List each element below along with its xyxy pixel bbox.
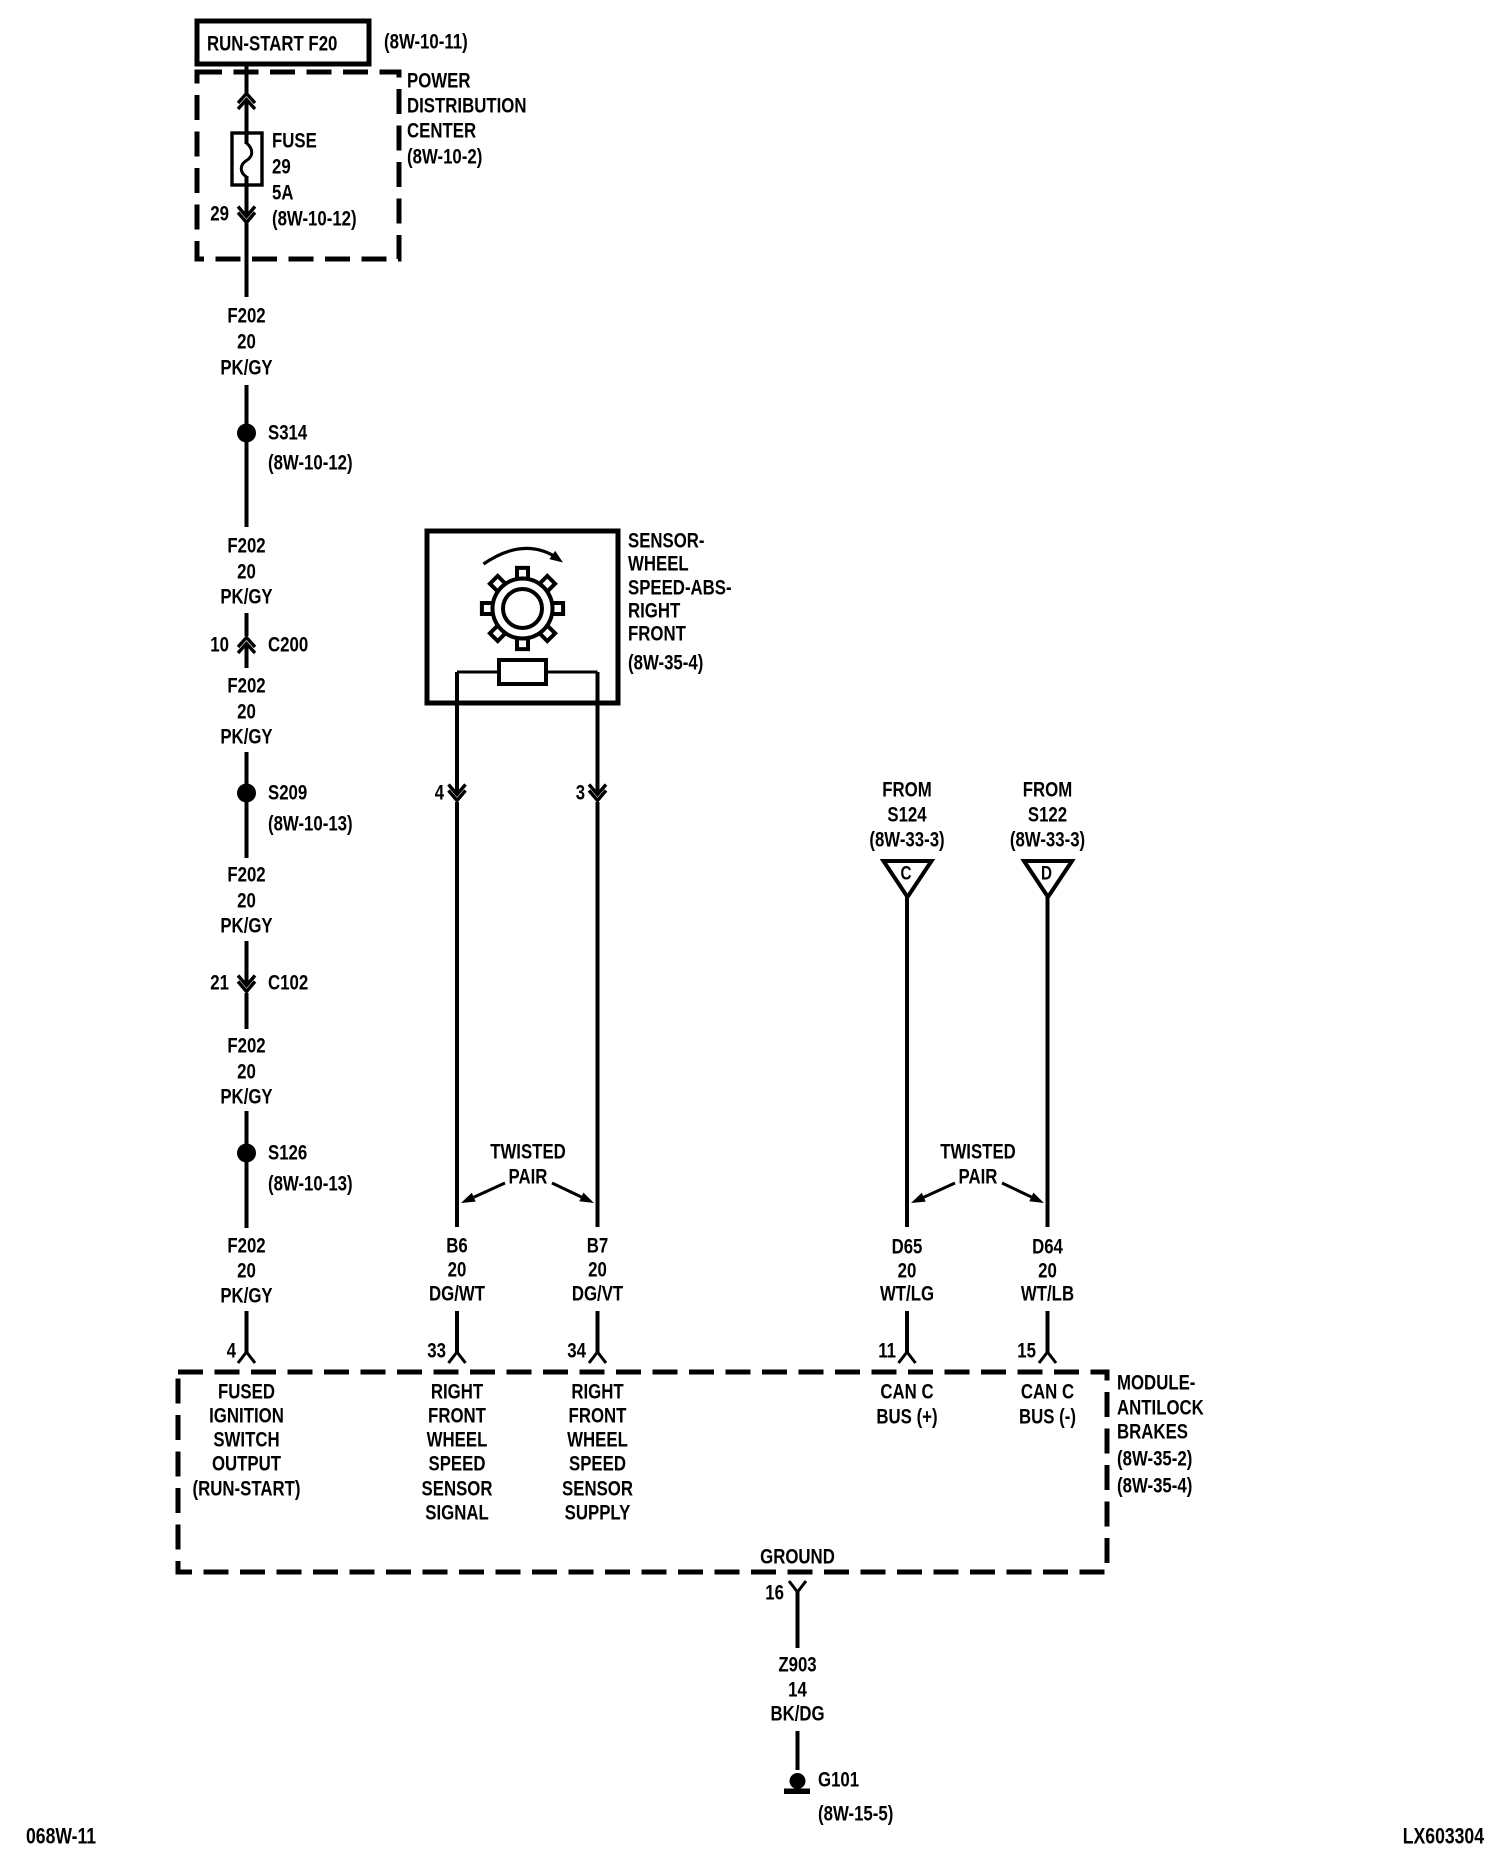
svg-text:C102: C102 (268, 972, 308, 995)
svg-text:21: 21 (210, 972, 229, 995)
svg-text:PK/GY: PK/GY (220, 357, 272, 380)
tone wheel gear (482, 568, 563, 649)
svg-text:20: 20 (237, 1260, 256, 1283)
svg-text:G101: G101 (818, 1769, 859, 1792)
svg-text:BUS (+): BUS (+) (876, 1406, 937, 1429)
svg-text:B7: B7 (587, 1235, 609, 1258)
twisted pair arrow to B7 (552, 1183, 581, 1197)
svg-text:SIGNAL: SIGNAL (425, 1502, 489, 1525)
wire C102 down (245, 993, 249, 1029)
svg-text:20: 20 (588, 1259, 607, 1282)
svg-text:(8W-10-13): (8W-10-13) (268, 1173, 353, 1196)
svg-text:(8W-35-2): (8W-35-2) (1117, 1448, 1192, 1471)
svg-text:ANTILOCK: ANTILOCK (1117, 1397, 1204, 1420)
svg-text:TWISTED: TWISTED (490, 1141, 566, 1164)
svg-text:FUSE: FUSE (272, 130, 317, 153)
wire fuse to pin 29 (245, 176, 249, 214)
wire to splice S126 (245, 1111, 249, 1145)
svg-text:WHEEL: WHEEL (628, 553, 689, 576)
twisted pair arrow to D64 (1002, 1183, 1031, 1197)
svg-text:B6: B6 (446, 1235, 468, 1258)
sensor internal wire right (546, 671, 598, 674)
wire to splice S209 (245, 752, 249, 785)
svg-text:C200: C200 (268, 634, 308, 657)
wire B6 down (455, 802, 459, 1227)
svg-text:16: 16 (765, 1582, 784, 1605)
svg-text:F202: F202 (227, 1235, 265, 1258)
wire B7 down (596, 802, 600, 1227)
sensor box (wheel speed sensor) (427, 531, 618, 703)
svg-text:PK/GY: PK/GY (220, 1086, 272, 1109)
svg-text:SUPPLY: SUPPLY (565, 1502, 631, 1525)
svg-text:068W-11: 068W-11 (26, 1824, 96, 1849)
svg-text:20: 20 (448, 1259, 467, 1282)
svg-text:D: D (1041, 864, 1052, 885)
svg-text:(RUN-START): (RUN-START) (193, 1478, 301, 1501)
power distribution center box (dashed) (197, 72, 399, 259)
svg-text:4: 4 (227, 1340, 237, 1363)
off-page connector D (from S122) (1024, 861, 1072, 897)
wire to module pin 4 (245, 1311, 249, 1352)
svg-text:S122: S122 (1028, 804, 1067, 827)
svg-text:WHEEL: WHEEL (427, 1429, 488, 1452)
svg-text:SPEED: SPEED (429, 1453, 486, 1476)
wire sensor pin 3 down (596, 701, 600, 793)
wire CAN C bus + down (905, 897, 909, 1227)
splice S314 (237, 424, 256, 443)
wire S126 down (245, 1161, 249, 1228)
svg-text:S314: S314 (268, 422, 307, 445)
svg-text:S124: S124 (887, 804, 926, 827)
svg-text:POWER: POWER (407, 70, 471, 93)
svg-text:DG/VT: DG/VT (572, 1283, 623, 1306)
svg-text:C: C (901, 864, 912, 885)
svg-text:PK/GY: PK/GY (220, 586, 272, 609)
svg-text:RIGHT: RIGHT (571, 1381, 623, 1404)
svg-text:33: 33 (427, 1340, 446, 1363)
wire chevron to fuse (245, 100, 249, 144)
svg-text:BK/DG: BK/DG (770, 1703, 824, 1726)
svg-text:15: 15 (1017, 1340, 1036, 1363)
svg-text:TWISTED: TWISTED (940, 1141, 1016, 1164)
wire C200 down (245, 644, 249, 668)
svg-text:PK/GY: PK/GY (220, 1285, 272, 1308)
svg-text:(8W-35-4): (8W-35-4) (1117, 1475, 1192, 1498)
svg-text:FRONT: FRONT (428, 1405, 486, 1428)
svg-text:(8W-33-3): (8W-33-3) (869, 829, 944, 852)
connector chevron into PDC (238, 94, 255, 110)
svg-text:S209: S209 (268, 782, 307, 805)
wire S314 down (245, 441, 249, 527)
svg-text:CENTER: CENTER (407, 120, 476, 143)
svg-text:F202: F202 (227, 675, 265, 698)
svg-text:RUN-START F20: RUN-START F20 (207, 33, 337, 56)
svg-text:WHEEL: WHEEL (567, 1429, 628, 1452)
wire B6 to module pin 33 (455, 1311, 459, 1352)
svg-text:(8W-10-13): (8W-10-13) (268, 813, 353, 836)
svg-text:FRONT: FRONT (628, 623, 686, 646)
svg-text:RIGHT: RIGHT (628, 600, 680, 623)
ground G101 symbol (790, 1773, 806, 1789)
svg-text:(8W-10-12): (8W-10-12) (272, 208, 357, 231)
splice S126 (237, 1144, 256, 1163)
wire D65 to module pin 11 (905, 1311, 909, 1352)
svg-text:OUTPUT: OUTPUT (212, 1453, 281, 1476)
wire to connector C102 (245, 941, 249, 984)
svg-text:10: 10 (210, 634, 229, 657)
svg-text:3: 3 (576, 782, 585, 805)
svg-text:IGNITION: IGNITION (209, 1405, 284, 1428)
svg-text:FROM: FROM (1023, 779, 1073, 802)
svg-text:20: 20 (237, 331, 256, 354)
svg-text:20: 20 (237, 561, 256, 584)
svg-text:PK/GY: PK/GY (220, 726, 272, 749)
wire sensor pin 4 down (455, 701, 459, 793)
svg-text:LX603304: LX603304 (1403, 1824, 1485, 1849)
svg-text:PK/GY: PK/GY (220, 915, 272, 938)
svg-text:D64: D64 (1032, 1236, 1063, 1259)
wire to splice S314 (245, 385, 249, 425)
svg-text:4: 4 (435, 782, 445, 805)
svg-text:F202: F202 (227, 864, 265, 887)
svg-text:F202: F202 (227, 305, 265, 328)
svg-text:SENSOR: SENSOR (422, 1478, 493, 1501)
svg-text:BUS (-): BUS (-) (1019, 1406, 1076, 1429)
svg-text:F202: F202 (227, 1035, 265, 1058)
svg-text:20: 20 (237, 1061, 256, 1084)
wire pin 16 down (796, 1592, 800, 1648)
twisted pair arrow to B6 (474, 1183, 505, 1197)
wire B7 to module pin 34 (596, 1311, 600, 1352)
twisted pair arrow to D65 (924, 1183, 955, 1197)
wire to ground G101 (796, 1731, 800, 1770)
svg-text:PAIR: PAIR (959, 1166, 998, 1189)
wire S209 down (245, 801, 249, 858)
module antilock brakes box (dashed) (178, 1372, 1107, 1572)
svg-text:FRONT: FRONT (569, 1405, 627, 1428)
svg-text:MODULE-: MODULE- (1117, 1372, 1195, 1395)
svg-text:WT/LG: WT/LG (880, 1283, 934, 1306)
svg-text:PAIR: PAIR (509, 1166, 548, 1189)
svg-text:DG/WT: DG/WT (429, 1283, 485, 1306)
svg-text:20: 20 (237, 701, 256, 724)
wire from RUN-START F20 into PDC (245, 62, 249, 93)
svg-text:11: 11 (878, 1340, 896, 1363)
rotation arrow over gear (484, 548, 555, 564)
sensor element (499, 660, 546, 684)
svg-text:RIGHT: RIGHT (431, 1381, 483, 1404)
svg-text:29: 29 (272, 156, 291, 179)
svg-text:20: 20 (1038, 1260, 1057, 1283)
svg-text:14: 14 (788, 1679, 807, 1702)
svg-text:D65: D65 (892, 1236, 923, 1259)
svg-text:20: 20 (898, 1260, 917, 1283)
svg-text:Z903: Z903 (778, 1654, 816, 1677)
fuse 29 5A (232, 133, 262, 185)
svg-text:(8W-10-11): (8W-10-11) (384, 31, 468, 54)
sensor internal wire left (457, 671, 499, 674)
svg-text:20: 20 (237, 890, 256, 913)
svg-text:WT/LB: WT/LB (1021, 1283, 1074, 1306)
svg-text:FUSED: FUSED (218, 1381, 275, 1404)
svg-text:FROM: FROM (882, 779, 932, 802)
svg-text:CAN C: CAN C (880, 1381, 933, 1404)
svg-text:S126: S126 (268, 1142, 307, 1165)
svg-text:SWITCH: SWITCH (213, 1429, 279, 1452)
fuse box label RUN-START F20 (197, 21, 369, 64)
svg-text:(8W-35-4): (8W-35-4) (628, 652, 703, 675)
svg-text:29: 29 (210, 203, 229, 226)
wire D64 to module pin 15 (1046, 1311, 1050, 1352)
svg-text:(8W-10-2): (8W-10-2) (407, 146, 482, 169)
wire CAN C bus - down (1046, 897, 1050, 1227)
wire pin 29 out of PDC (245, 223, 249, 297)
svg-text:CAN C: CAN C (1021, 1381, 1074, 1404)
splice S209 (237, 784, 256, 803)
svg-text:DISTRIBUTION: DISTRIBUTION (407, 95, 527, 118)
svg-text:SPEED: SPEED (569, 1453, 626, 1476)
wire to connector C200 (245, 613, 249, 636)
svg-text:SENSOR: SENSOR (562, 1478, 633, 1501)
svg-text:SENSOR-: SENSOR- (628, 530, 705, 553)
svg-text:(8W-10-12): (8W-10-12) (268, 452, 353, 475)
svg-text:F202: F202 (227, 535, 265, 558)
svg-text:SPEED-ABS-: SPEED-ABS- (628, 577, 732, 600)
svg-text:5A: 5A (272, 182, 294, 205)
svg-text:BRAKES: BRAKES (1117, 1421, 1188, 1444)
off-page connector C (from S124) (884, 861, 932, 897)
svg-text:34: 34 (567, 1340, 586, 1363)
svg-text:(8W-15-5): (8W-15-5) (818, 1803, 893, 1826)
svg-text:GROUND: GROUND (760, 1546, 835, 1569)
svg-text:(8W-33-3): (8W-33-3) (1010, 829, 1085, 852)
